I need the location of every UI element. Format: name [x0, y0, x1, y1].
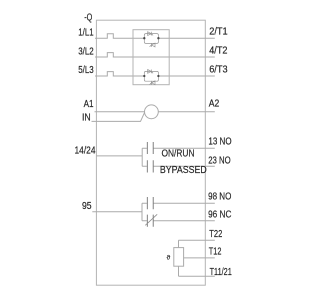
contact 95-96 NC with slash — [147, 215, 153, 227]
contact ON/RUN (13-14 NO) — [147, 142, 153, 154]
svg-text:T11/21: T11/21 — [210, 267, 233, 278]
junction dots V1 — [143, 37, 145, 39]
svg-text:T22: T22 — [209, 229, 222, 240]
svg-text:BYPASSED: BYPASSED — [160, 165, 207, 176]
control supply circle — [145, 105, 159, 119]
wire coil to A2 — [158, 111, 215, 113]
svg-text:T12: T12 — [209, 246, 222, 257]
wire T22 — [179, 239, 215, 241]
svg-text:6/T3: 6/T3 — [209, 64, 228, 75]
thyristor pair V1 (phase L1) — [144, 32, 158, 47]
svg-text:3/L2: 3/L2 — [78, 46, 94, 57]
wire phase L2 with terminal bump — [95, 53, 215, 57]
svg-text:14/24: 14/24 — [75, 146, 96, 157]
svg-text:13 NO: 13 NO — [208, 137, 231, 148]
wire phase L3 with terminal bump — [95, 72, 215, 76]
svg-text:4/T2: 4/T2 — [209, 45, 228, 56]
wire A1 to coil — [95, 111, 145, 113]
svg-text:23 NO: 23 NO — [208, 155, 231, 166]
wire T12 — [184, 257, 215, 259]
wire branch 96 NC — [142, 220, 215, 222]
wire IN input — [92, 112, 145, 121]
thyristor pair V2 (phase L3) — [144, 70, 158, 85]
thermistor sensor box — [174, 248, 184, 267]
contact BYPASSED (23-24 NO) — [147, 160, 153, 172]
svg-text:98 NO: 98 NO — [208, 192, 231, 203]
device outline box -Q — [96, 20, 205, 285]
svg-text:A2: A2 — [209, 99, 220, 110]
junction dots V2 — [143, 75, 145, 77]
wire junction 13/23 — [141, 148, 143, 166]
svg-text:96 NC: 96 NC — [208, 210, 231, 221]
svg-text:IN: IN — [82, 112, 91, 123]
svg-text:ON/RUN: ON/RUN — [162, 149, 195, 160]
wire thermistor vertical — [178, 240, 180, 276]
svg-text:5/L3: 5/L3 — [78, 65, 94, 76]
wire branch 23 NO — [142, 165, 215, 167]
svg-text:A1: A1 — [84, 99, 94, 110]
wire branch 13 NO — [142, 147, 215, 149]
svg-text:-Q: -Q — [84, 13, 92, 24]
wire 14/24 feed — [96, 155, 142, 157]
wire 95 feed — [92, 211, 142, 213]
svg-text:95: 95 — [82, 201, 92, 212]
contact 95-98 NO — [147, 197, 153, 209]
svg-text:ϑ: ϑ — [167, 254, 171, 261]
wire phase L1 with terminal bump — [95, 34, 215, 38]
wire junction 98/96 — [141, 203, 143, 221]
power section box — [133, 30, 169, 85]
wire branch 98 NO — [142, 202, 215, 204]
svg-text:2/T1: 2/T1 — [209, 26, 228, 37]
svg-text:1/L1: 1/L1 — [78, 27, 94, 38]
wire T11/21 — [179, 275, 215, 277]
